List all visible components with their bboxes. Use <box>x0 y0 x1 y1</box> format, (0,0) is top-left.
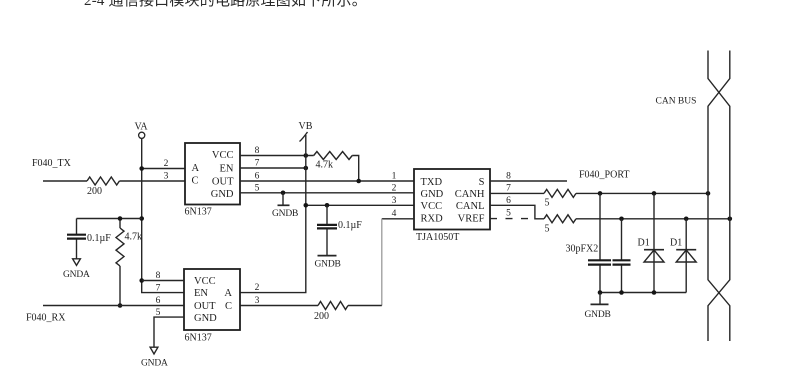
wire VB to U3 VCC (pin 3) <box>306 204 414 206</box>
op-amp U2 optocoupler 6N137 (bottom) box <box>184 269 240 330</box>
caption text (cropped at top) <box>84 0 784 9</box>
wire U1 VCC (pin 8) to VB rail and 4.7k <box>240 155 314 157</box>
svg-text:3: 3 <box>255 296 260 306</box>
svg-text:7: 7 <box>156 283 161 293</box>
wire CAN bus twisted pair line 2 <box>708 51 730 342</box>
svg-text:5: 5 <box>255 183 260 193</box>
svg-text:30pFX2: 30pFX2 <box>566 244 599 255</box>
wire RXD bottom run to resistor <box>348 305 382 307</box>
capacitor 0.1uF (U3 VCC decoupling) <box>326 205 328 224</box>
wire decoupling link <box>77 218 142 220</box>
capacitor 0.1uF (VA decoupling) <box>76 219 78 235</box>
node D1/gnd junction <box>652 290 657 295</box>
svg-text:1: 1 <box>392 172 397 182</box>
node cap2/gnd junction <box>619 290 624 295</box>
svg-text:4.7k: 4.7k <box>316 160 334 171</box>
wire U3 CANH (pin 7) to resistor <box>490 192 544 194</box>
transceiver U3 TJA1050T box <box>414 169 490 230</box>
wire F040_TX to resistor <box>43 180 87 182</box>
svg-text:TJA1050T: TJA1050T <box>416 232 459 243</box>
svg-text:RXD: RXD <box>421 214 444 225</box>
svg-text:CANH: CANH <box>455 189 485 200</box>
wire 4.7k to TXD line <box>352 156 359 182</box>
svg-text:C: C <box>225 301 232 312</box>
svg-text:VA: VA <box>135 122 149 133</box>
svg-text:VB: VB <box>299 121 313 132</box>
svg-text:F040_PORT: F040_PORT <box>579 170 630 181</box>
svg-text:3: 3 <box>392 196 397 206</box>
svg-text:200: 200 <box>314 311 329 322</box>
svg-text:3: 3 <box>164 172 169 182</box>
svg-text:VCC: VCC <box>194 276 216 287</box>
svg-text:VCC: VCC <box>421 201 443 212</box>
node VB/EN junction <box>304 166 309 171</box>
svg-text:OUT: OUT <box>212 177 234 188</box>
capacitor 30pF no.1 <box>599 193 601 259</box>
node 4.7k bottom junction <box>118 303 123 308</box>
node CANH/cap1 junction <box>598 191 603 196</box>
svg-text:GNDB: GNDB <box>585 310 611 320</box>
svg-text:A: A <box>224 288 232 299</box>
wire U3 S (pin 8) stub <box>490 180 567 182</box>
svg-text:CAN BUS: CAN BUS <box>656 97 697 107</box>
wire U2 OUT (pin 6) F040_RX line <box>43 305 184 307</box>
wire resistor to U2 pin C <box>240 305 318 307</box>
node CANL/bus junction <box>728 217 733 222</box>
wire CAN bus twisted pair line 1 <box>708 51 730 342</box>
svg-text:5: 5 <box>545 198 550 209</box>
svg-text:7: 7 <box>506 184 511 194</box>
wire U1 OUT (pin 6) to U3 TXD (pin 1) <box>240 180 414 182</box>
svg-text:GNDB: GNDB <box>315 260 341 270</box>
svg-text:TXD: TXD <box>421 177 443 188</box>
node VA/U2 VCC junction <box>139 278 144 283</box>
wire U1 EN (pin 7) to VB rail <box>240 167 306 169</box>
svg-text:2: 2 <box>164 159 169 169</box>
resistor 5 (CANL series) <box>544 215 576 223</box>
svg-text:8: 8 <box>156 271 161 281</box>
node VA/decoupling junction <box>139 216 144 221</box>
wire U3 RXD (pin 4) horizontal stub <box>382 218 414 220</box>
svg-text:GNDA: GNDA <box>141 359 168 369</box>
svg-text:OUT: OUT <box>194 301 216 312</box>
wire resistor to U1 pin C (pin 3) <box>119 180 185 182</box>
svg-text:6N137: 6N137 <box>185 333 212 344</box>
wire VA vertical rail down to U2 pin EN <box>142 139 184 293</box>
svg-text:VCC: VCC <box>212 150 234 161</box>
node 4.7k top junction <box>118 216 123 221</box>
svg-text:0.1µF: 0.1µF <box>87 233 111 244</box>
ground GNDB (under 0.1uF) <box>318 255 337 257</box>
svg-text:D1: D1 <box>670 238 682 249</box>
wire U3 VREF (pin 5) dashed <box>490 218 535 220</box>
wire RXD vertical drop (faint) <box>381 219 383 306</box>
wire U3 CANL (pin 6) jog down <box>490 205 544 219</box>
svg-text:8: 8 <box>506 172 511 182</box>
svg-text:GNDA: GNDA <box>63 270 90 280</box>
svg-text:6: 6 <box>506 196 511 206</box>
svg-text:4: 4 <box>392 209 397 219</box>
svg-text:0.1µF: 0.1µF <box>338 220 362 231</box>
svg-text:6: 6 <box>255 172 260 182</box>
resistor 200 (TX series) <box>87 177 119 185</box>
capacitor 30pF no.2 <box>621 219 623 260</box>
wire VA to U1 pin A (pin 2) <box>142 168 185 170</box>
node CANH/D1 junction <box>652 191 657 196</box>
node VB/U3-VCC junction <box>304 203 309 208</box>
svg-text:GNDB: GNDB <box>272 209 298 219</box>
resistor 4.7k (TXD pull-up, horizontal) <box>314 152 353 160</box>
node GNDB stub junction <box>281 191 286 196</box>
svg-text:5: 5 <box>506 209 511 219</box>
node 4.7k/TXD junction <box>356 179 361 184</box>
svg-text:CANL: CANL <box>456 201 485 212</box>
resistor 200 (RX series) <box>318 302 348 310</box>
svg-text:A: A <box>192 163 200 174</box>
ground GNDA (under capacitor) <box>73 259 81 266</box>
wire CANL line to CAN bus <box>576 218 730 220</box>
node CANL/cap2 junction <box>619 217 624 222</box>
svg-text:GND: GND <box>194 313 217 324</box>
node CANL/D2 junction <box>684 217 689 222</box>
node CANH/bus junction <box>706 191 711 196</box>
resistor 4.7k (RX pull-up, vertical) <box>119 219 121 229</box>
wire CANH line to CAN bus <box>576 192 708 194</box>
svg-text:6: 6 <box>156 296 161 306</box>
ground GNDB (protection) <box>599 293 601 304</box>
svg-text:EN: EN <box>220 164 234 175</box>
resistor 5 (CANH series) <box>544 189 576 197</box>
op-amp U1 optocoupler 6N137 (top) box <box>185 143 240 205</box>
wire U2 GND (pin 5) to GNDA <box>154 317 184 347</box>
node VA/A junction <box>139 166 144 171</box>
ground GNDA (U2) <box>150 347 158 354</box>
svg-text:S: S <box>479 177 485 188</box>
svg-text:2: 2 <box>255 283 260 293</box>
wire U2 VCC (pin 8) to VA rail <box>142 280 184 282</box>
svg-text:C: C <box>192 176 199 187</box>
node cap stub junction <box>325 203 330 208</box>
svg-text:VREF: VREF <box>458 214 485 225</box>
svg-text:200: 200 <box>87 186 102 197</box>
svg-text:F040_TX: F040_TX <box>32 158 72 169</box>
ground GNDB (U1 side) <box>282 193 284 205</box>
svg-text:6N137: 6N137 <box>185 207 212 218</box>
node VB/VCC junction <box>304 153 309 158</box>
svg-text:8: 8 <box>255 146 260 156</box>
svg-text:4.7k: 4.7k <box>125 232 143 243</box>
svg-text:GND: GND <box>421 189 444 200</box>
svg-text:2: 2 <box>392 184 397 194</box>
node cap1/gnd junction <box>598 290 603 295</box>
svg-text:D1: D1 <box>638 238 650 249</box>
svg-text:7: 7 <box>255 159 260 169</box>
svg-text:EN: EN <box>194 288 208 299</box>
wire U1 GND (pin 5) to U3 GND (pin 2) <box>240 192 414 194</box>
wire protection ground bus <box>600 292 686 294</box>
svg-text:GND: GND <box>211 189 234 200</box>
svg-text:F040_RX: F040_RX <box>26 313 66 324</box>
svg-text:5: 5 <box>545 224 550 235</box>
wire VB vertical rail down to U2 pin A <box>240 135 306 293</box>
